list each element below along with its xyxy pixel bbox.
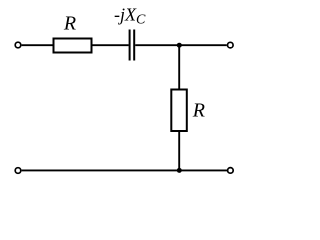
wire: top-left terminal to resistor R (series) <box>22 44 53 46</box>
node: bottom junction <box>177 168 182 173</box>
capacitor -jXC: right plate <box>133 30 135 61</box>
svg-text:-jXC: -jXC <box>114 4 146 27</box>
capacitor -jXC: left plate <box>129 30 131 61</box>
terminal bottom-left <box>15 168 21 174</box>
svg-text:R: R <box>192 99 205 121</box>
wire: capacitor to top-right terminal (through node) <box>135 44 227 46</box>
wire: resistor R to capacitor <box>92 44 129 46</box>
resistor R (shunt, vertical) <box>171 90 187 132</box>
svg-text:R: R <box>63 13 76 35</box>
terminal top-right <box>228 42 234 48</box>
terminal bottom-right <box>228 168 234 174</box>
wire: bottom rail, bottom-left terminal to bottom-right terminal <box>22 169 227 171</box>
node: top junction <box>177 43 182 48</box>
wire: top junction down to shunt resistor R <box>178 45 180 89</box>
terminal top-left <box>15 42 21 48</box>
resistor R (series, horizontal) <box>54 39 92 53</box>
wire: shunt resistor to bottom junction <box>178 131 180 170</box>
